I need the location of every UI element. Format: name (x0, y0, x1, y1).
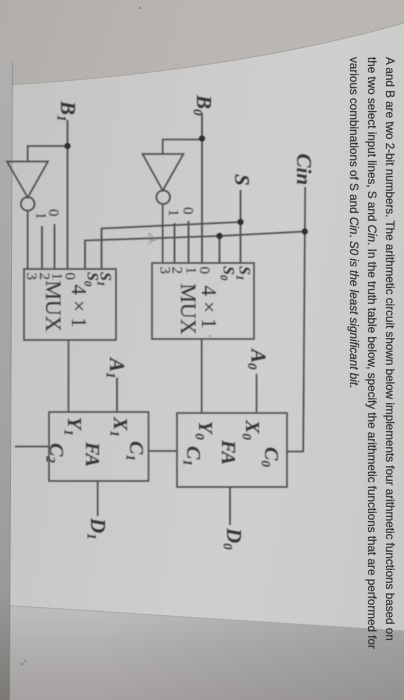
svg-text:A1: A1 (104, 356, 130, 379)
full adder U4 box (49, 412, 149, 481)
full adder U3 box (177, 413, 287, 487)
svg-text:D0: D0 (221, 527, 247, 550)
svg-text:X1: X1 (108, 416, 132, 437)
junction S (237, 219, 243, 225)
wire const1 to MUX1 in2 (174, 223, 176, 263)
wire S branch down to MUX2 S1 (102, 222, 241, 269)
top-left darker corner (photo edge) (0, 0, 404, 86)
wire Cin branch down to MUX2 S0 (85, 232, 305, 270)
svg-text:D1: D1 (85, 517, 111, 540)
inverter G1 bubble (156, 190, 170, 204)
wire C2 out (15, 446, 49, 448)
problem text line 1 (383, 57, 396, 641)
wire D1 out (97, 481, 99, 516)
svg-text:C1: C1 (181, 446, 205, 466)
svg-text:X0: X0 (240, 419, 264, 440)
wire B0 lead to MUX1 in0 (201, 113, 203, 263)
svg-text:1: 1 (33, 212, 49, 220)
svg-text:Y1: Y1 (62, 417, 86, 436)
svg-text:0: 0 (180, 207, 196, 215)
junction B0 (199, 135, 205, 141)
svg-text:Y0: Y0 (193, 421, 217, 440)
svg-text:C2: C2 (44, 443, 68, 463)
left band (0, 0, 1, 1)
wire D0 out (229, 487, 231, 525)
wire A0 lead to FA1 X0 (256, 374, 258, 413)
junction B1 (64, 143, 70, 149)
mux U1 box (152, 263, 254, 339)
wire S lead to MUX1 S1 (240, 190, 242, 263)
wire C1 link FA1 to FA2 (149, 450, 178, 452)
svg-text:FA: FA (81, 441, 103, 467)
inverter G1 triangle (143, 154, 184, 191)
wire inverter1 out to MUX2 in3 (27, 210, 29, 269)
svg-text:A0: A0 (245, 347, 271, 370)
svg-text:MUX: MUX (176, 283, 201, 334)
wire const0 to MUX1 in1 (188, 221, 190, 263)
svg-text:MUX: MUX (41, 280, 66, 331)
svg-text:3: 3 (23, 273, 39, 281)
inverter G2 triangle (7, 162, 48, 198)
svg-text:B0: B0 (191, 94, 217, 116)
junction Cin-rail (302, 228, 308, 234)
wire A1 lead to FA2 X1 (116, 378, 118, 413)
wire inverter0 out to MUX1 in3 (162, 204, 164, 263)
svg-text:3: 3 (157, 267, 173, 275)
svg-text:C1: C1 (124, 441, 148, 461)
inverter G2 bubble (21, 197, 35, 211)
svg-text:1: 1 (165, 209, 181, 217)
specks (139, 7, 141, 9)
wire const1 to MUX2 in2 (41, 226, 43, 269)
wire MUX2 out to FA2 Y1 (67, 340, 69, 412)
wire Cin rail to FA1 C0 (287, 187, 305, 452)
svg-text:C0: C0 (259, 447, 283, 467)
svg-text:1: 1 (183, 267, 199, 275)
svg-text:4 × 1: 4 × 1 (67, 284, 91, 327)
bottom darker region (photo edge) (0, 605, 404, 700)
wire B0 branch to inverter (163, 140, 202, 155)
smudge artifact (148, 233, 156, 244)
problem text line 2 (365, 57, 378, 649)
wire const0 to MUX2 in1 (54, 224, 56, 269)
wire MUX1 out to FA1 Y0 (201, 339, 203, 413)
junction Cin-MUX1 (216, 233, 222, 239)
problem text line 3 (347, 57, 360, 388)
svg-text:B1: B1 (55, 100, 81, 122)
svg-text:Cin: Cin (292, 154, 316, 186)
mux U2 box (24, 269, 116, 340)
wire B1 lead to MUX2 in0 (67, 120, 69, 269)
svg-text:S: S (230, 174, 254, 186)
svg-text:FA: FA (217, 439, 239, 465)
wire B1 branch to inverter (28, 146, 68, 162)
wire Cin to MUX1 S0 (219, 236, 221, 263)
